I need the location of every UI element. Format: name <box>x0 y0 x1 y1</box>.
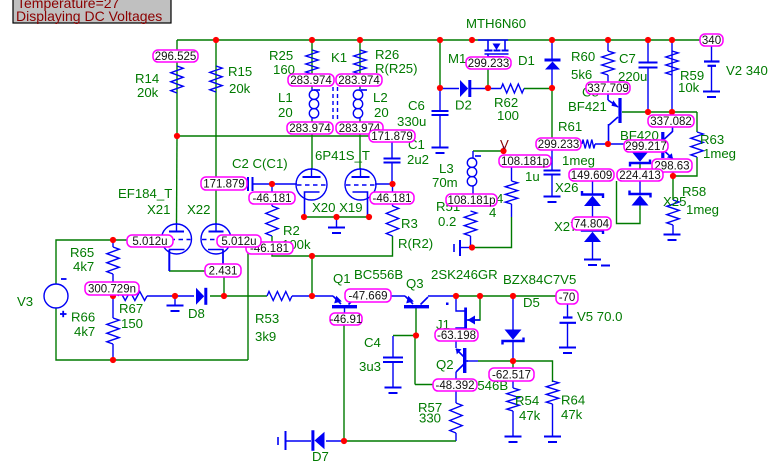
wire R54 upper lead <box>512 381 514 388</box>
wire R60 column <box>607 40 609 51</box>
battery V5 <box>560 318 577 323</box>
svg-text:283.974: 283.974 <box>289 123 331 135</box>
transistor BF421 <box>608 94 622 144</box>
V5 polarity dash <box>601 265 610 267</box>
svg-text:283.974: 283.974 <box>290 75 332 87</box>
wire Q1 base drop <box>343 325 345 441</box>
wire V2 body line <box>711 66 713 91</box>
label 108.181p b <box>446 194 497 207</box>
wire D7 anode wire <box>326 440 344 442</box>
wire X21 cathode drop <box>168 250 170 271</box>
wire X19 grid wire <box>375 183 393 185</box>
wire R66 lower <box>112 344 114 360</box>
wire 1u cap to ground <box>551 175 553 196</box>
node C7 bottom <box>645 109 651 115</box>
wire Q2 node left wire <box>415 384 433 386</box>
stray mark near J1 <box>446 303 449 306</box>
ground under X27 <box>584 260 601 266</box>
ground at D8 <box>167 306 184 312</box>
node R66 bottom <box>110 357 116 363</box>
wire R4 bottom wire <box>472 217 512 248</box>
transistor BF420 <box>640 126 673 159</box>
wire R26 column <box>359 40 361 88</box>
label -47.669 <box>345 289 391 303</box>
svg-text:2SK246GR: 2SK246GR <box>431 267 498 282</box>
wire R14 column <box>176 40 178 136</box>
label 340 <box>700 34 723 47</box>
resistor R61 <box>582 140 595 149</box>
label 108.181p a <box>499 155 551 168</box>
zener diode D5 <box>503 329 524 344</box>
wire X22 cathode drop <box>222 250 224 271</box>
svg-text:R3: R3 <box>401 216 418 231</box>
svg-text:D8: D8 <box>188 306 205 321</box>
wire anode rail 171.879 <box>177 135 369 137</box>
node D5 top <box>510 293 516 299</box>
L3 polarity mark <box>475 155 481 157</box>
svg-text:R(R25): R(R25) <box>375 61 418 76</box>
svg-text:1u: 1u <box>525 169 540 184</box>
label 283.974 c <box>287 122 333 135</box>
node X19 grid <box>389 181 395 187</box>
label 337.709 <box>586 82 630 95</box>
ground under 1u cap <box>544 197 561 203</box>
wire cathode join wire <box>169 270 223 272</box>
wire BF421 collector wire <box>622 111 697 113</box>
wire D2-R62 node wire <box>440 88 459 90</box>
wire R57 lower lead <box>455 433 457 441</box>
wire mid zener lower link <box>639 181 641 193</box>
wire Q2 emitter drop <box>455 372 457 379</box>
wire D8 to R53 wire <box>210 295 267 297</box>
wire R25 column <box>311 40 313 88</box>
svg-text:5k6: 5k6 <box>571 67 592 82</box>
ground under R58 <box>664 235 681 241</box>
svg-text:299.217: 299.217 <box>625 141 667 153</box>
wire X21 grid wire <box>113 239 161 241</box>
wire J1 node wire <box>456 295 513 297</box>
svg-text:R64: R64 <box>561 393 585 408</box>
wire C6 upper lead <box>439 88 441 111</box>
svg-text:10k: 10k <box>678 80 700 95</box>
label -70 <box>556 290 578 304</box>
node D2 left <box>437 85 443 91</box>
label 298.63 <box>652 159 692 173</box>
zener diode X27 (bar under label) <box>582 227 603 242</box>
svg-text:300.729n: 300.729n <box>88 284 136 296</box>
node D7-Q1 <box>341 438 347 444</box>
label 5.012u b <box>217 235 261 248</box>
node BF420 emitter <box>670 173 676 179</box>
svg-text:4k7: 4k7 <box>73 259 94 274</box>
resistor R60 <box>602 51 614 75</box>
wire C1 column <box>391 142 393 158</box>
node X19 cathode <box>366 214 372 220</box>
wire Q3 to J1 wire <box>428 295 456 297</box>
wire R4 column bottom <box>511 204 513 217</box>
transistor Q1 (BC556B) <box>332 296 357 309</box>
D7 input terminal <box>278 431 286 450</box>
wire X26 column <box>592 181 594 194</box>
wire C6 lower lead <box>439 115 441 148</box>
node D8 ground <box>172 293 178 299</box>
label 300.729n <box>85 282 139 296</box>
wire R51 lower lead <box>471 236 473 248</box>
wire Q2 collector to D5 node <box>478 360 513 362</box>
svg-text:R65: R65 <box>70 245 94 260</box>
wire R66 upper <box>112 296 114 318</box>
label 299.233 M1 <box>466 57 511 70</box>
node rail-R26 <box>357 37 363 43</box>
wire D1 column top <box>551 40 553 59</box>
resistor R3 <box>386 206 398 236</box>
resistor R53 <box>267 292 292 301</box>
svg-text:BF421: BF421 <box>568 99 607 114</box>
wire D5 lower lead <box>512 342 514 361</box>
svg-text:-63.198: -63.198 <box>437 330 476 342</box>
wire D5 node to R64 <box>513 361 553 382</box>
wire V3 top wire <box>56 240 113 284</box>
wire R14 to X21 anode <box>176 136 179 224</box>
resistor R63 <box>691 132 703 157</box>
resistor R59 <box>666 51 678 75</box>
svg-text:R25: R25 <box>269 48 293 63</box>
ground under V2 <box>703 92 720 98</box>
svg-text:6P41S_T: 6P41S_T <box>315 148 370 163</box>
wire J1 label to Q2 <box>455 341 457 348</box>
wire Q1 base stub <box>344 308 346 313</box>
capacitor 1u <box>544 171 561 175</box>
wire R63 bottom wire <box>673 157 697 176</box>
label 283.974 d <box>336 122 383 135</box>
node anode rail <box>174 133 180 139</box>
wire R58 column <box>672 176 674 200</box>
wire L3 top wire <box>473 150 503 152</box>
svg-text:330: 330 <box>419 411 441 426</box>
svg-text:R2: R2 <box>283 223 300 238</box>
svg-text:L1: L1 <box>278 90 293 105</box>
ground under C4 <box>385 388 402 394</box>
node rail-M1 <box>469 37 475 43</box>
node rail-R25 <box>309 37 315 43</box>
wire L3 to label <box>472 188 474 194</box>
wire C4 lower lead <box>392 362 394 387</box>
wire X22 grid wire <box>231 239 248 241</box>
svg-text:20: 20 <box>278 105 293 120</box>
svg-text:47k: 47k <box>561 407 583 422</box>
svg-text:R14: R14 <box>135 71 159 86</box>
svg-text:171.879: 171.879 <box>203 179 245 191</box>
svg-text:171.879: 171.879 <box>371 131 413 143</box>
svg-text:D2: D2 <box>455 98 472 113</box>
node rail-R15 <box>213 37 219 43</box>
svg-text:299.233: 299.233 <box>538 139 580 151</box>
vacuum tube X21 (EF184) <box>162 223 192 271</box>
ground under V5 <box>559 348 576 354</box>
resistor R62 <box>501 84 524 93</box>
wire mid zener bottom loop <box>617 181 641 224</box>
svg-text:337.082: 337.082 <box>650 116 692 128</box>
wire R2 bottom wire <box>272 236 393 256</box>
vacuum tube X19 (6P41S) <box>345 168 376 217</box>
label -48.392 <box>433 379 477 392</box>
resistor R15 <box>210 66 222 92</box>
svg-text:74.804: 74.804 <box>574 219 610 231</box>
status header box <box>13 0 171 24</box>
svg-text:V5 70.0: V5 70.0 <box>577 309 622 324</box>
L2 polarity mark <box>361 89 367 91</box>
svg-text:R54: R54 <box>515 393 539 408</box>
svg-text:224.413: 224.413 <box>619 170 661 182</box>
svg-text:-46.91: -46.91 <box>330 314 363 326</box>
label 171.879 C2 <box>201 177 247 191</box>
resistor R64 <box>546 381 558 404</box>
wire D8 ground stub <box>174 296 176 305</box>
node D8-cathode <box>221 293 227 299</box>
svg-text:Displaying DC Voltages: Displaying DC Voltages <box>16 8 162 24</box>
zener diode lower of pair <box>630 191 651 206</box>
svg-text:283.974: 283.974 <box>338 75 380 87</box>
wire X27 to ground <box>592 238 594 259</box>
svg-text:-47.669: -47.669 <box>348 291 387 303</box>
node R61-BF421 <box>605 141 611 147</box>
svg-text:108.181p: 108.181p <box>501 156 549 168</box>
wire BF420 emitter stub <box>672 158 674 162</box>
label 224.413 <box>617 169 663 182</box>
node D1 bottom <box>549 85 555 91</box>
node X20 cathode <box>301 214 307 220</box>
svg-text:C2 C(C1): C2 C(C1) <box>232 156 288 171</box>
wire C6 column upper <box>439 40 441 88</box>
svg-text:0.2: 0.2 <box>438 214 456 229</box>
svg-text:R(R2): R(R2) <box>398 236 433 251</box>
wire X26 to 74.804 <box>592 205 594 217</box>
node D5-Q2 <box>510 358 516 364</box>
label -46.181 c <box>246 242 293 255</box>
node R2-R3 mid <box>309 253 315 259</box>
svg-text:5.012u: 5.012u <box>132 236 167 248</box>
svg-text:337.709: 337.709 <box>587 83 629 95</box>
svg-text:M1: M1 <box>448 51 466 66</box>
wire R59 column <box>671 40 673 112</box>
wire V5 body line <box>567 323 569 347</box>
resistor R57 <box>450 403 462 433</box>
wire J1 top lead <box>456 296 465 311</box>
svg-text:R61: R61 <box>558 119 582 134</box>
svg-text:70m: 70m <box>432 175 458 190</box>
wire feedback drop <box>311 256 313 296</box>
resistor R51 <box>464 211 476 236</box>
JFET J1 <box>464 308 480 329</box>
wire R3 column <box>392 184 394 206</box>
MOSFET M1 (MTH6N60) <box>478 40 509 57</box>
svg-text:330u: 330u <box>397 114 426 129</box>
svg-text:20: 20 <box>374 105 389 120</box>
svg-text:D1: D1 <box>518 53 535 68</box>
wire C7 lower lead <box>647 68 649 113</box>
svg-text:X22: X22 <box>187 202 210 217</box>
wire R54 to ground <box>512 411 514 436</box>
label 149.609 <box>569 169 614 182</box>
svg-text:149.609: 149.609 <box>571 170 613 182</box>
label -62.517 <box>489 368 534 382</box>
node rail-R59 <box>669 37 675 43</box>
wire wire to -70 label <box>513 295 556 297</box>
svg-text:150: 150 <box>121 316 143 331</box>
node rail-R60 <box>605 37 611 43</box>
wire L1 bottom to X20 anode <box>311 120 313 169</box>
wire R62 to D1 node <box>524 88 552 90</box>
wire J1 bottom lead <box>456 328 466 330</box>
wire R61 to BF421 wire <box>595 143 624 145</box>
svg-text:D5: D5 <box>523 295 540 310</box>
svg-text:Q3: Q3 <box>406 276 424 291</box>
wire R64 to ground <box>552 404 554 436</box>
label -46.181 b <box>370 192 414 205</box>
wire C4 node drop <box>414 336 416 385</box>
wire V5 stub <box>567 304 569 317</box>
label -63.198 <box>435 329 478 342</box>
wire D2 to R62 wire <box>471 88 501 90</box>
wire X20 grid wire <box>254 183 297 185</box>
wire mid zener stub top <box>639 152 641 156</box>
svg-text:4k7: 4k7 <box>74 324 95 339</box>
wire C7 upper lead <box>647 40 649 63</box>
svg-text:D7: D7 <box>312 449 329 464</box>
label 337.082 <box>648 115 694 128</box>
wire C4 top wire <box>393 335 416 337</box>
node M1 gate <box>485 85 491 91</box>
wire top B+ rail <box>177 39 700 41</box>
svg-text:-46.181: -46.181 <box>372 193 411 205</box>
wire V3 bottom wire <box>56 308 248 360</box>
ground under C6 <box>432 148 449 154</box>
svg-text:Q1: Q1 <box>333 271 351 286</box>
K1 core coupling dashes <box>333 87 338 120</box>
svg-text:4: 4 <box>489 205 496 220</box>
wire R15 column <box>215 40 217 224</box>
label 296.525 <box>153 50 198 63</box>
svg-text:5.012u: 5.012u <box>221 236 256 248</box>
label 5.012u a <box>127 235 173 248</box>
capacitor C4 <box>383 358 403 363</box>
wire L2 bottom to X19 anode <box>359 120 361 169</box>
node R65-R67 <box>110 293 116 299</box>
svg-text:47k: 47k <box>519 408 541 423</box>
node rail-C7 <box>645 37 651 43</box>
svg-text:20k: 20k <box>229 81 251 96</box>
wire 1u cap column <box>551 150 553 170</box>
label 283.974 a <box>288 74 334 87</box>
diode D2 <box>460 80 470 97</box>
svg-text:100: 100 <box>497 108 519 123</box>
svg-text:X26: X26 <box>555 180 578 195</box>
vacuum tube X20 (6P41S) <box>296 168 327 217</box>
resistor R54 <box>507 388 519 411</box>
svg-text:C4: C4 <box>364 335 381 350</box>
svg-text:-62.517: -62.517 <box>492 370 531 382</box>
vacuum tube X22 (EF184) <box>201 223 231 271</box>
svg-text:R63: R63 <box>700 132 724 147</box>
label 299.233 R61 <box>536 138 581 151</box>
diode D7 <box>313 430 325 451</box>
svg-text:R60: R60 <box>571 49 595 64</box>
label 2.431 <box>205 264 241 278</box>
node V3-R65 <box>110 237 116 243</box>
zener diode upper of pair <box>630 152 650 166</box>
svg-text:340: 340 <box>702 35 721 47</box>
wire X20 cathode ground wire <box>304 216 369 218</box>
svg-text:V: V <box>500 137 509 152</box>
svg-text:R26: R26 <box>375 47 399 62</box>
wire R4 column top <box>511 167 513 181</box>
wire BF420 emitter to dot <box>672 172 674 176</box>
resistor R26 <box>354 50 366 74</box>
svg-text:X21: X21 <box>147 202 170 217</box>
svg-text:C7: C7 <box>619 51 636 66</box>
node rail-C6 <box>437 37 443 43</box>
svg-text:-48.392: -48.392 <box>435 380 474 392</box>
svg-text:C6: C6 <box>408 98 425 113</box>
svg-text:299.233: 299.233 <box>468 58 510 70</box>
svg-text:108.181p: 108.181p <box>448 195 496 207</box>
wire cathode ground stub <box>336 217 338 227</box>
svg-text:L2: L2 <box>373 90 388 105</box>
wire D7 rail <box>344 440 456 442</box>
svg-text:1meg: 1meg <box>686 202 719 217</box>
wire Q3 source drop <box>415 308 417 335</box>
resistor R66 <box>107 318 119 344</box>
node R59 bottom <box>669 109 675 115</box>
svg-text:1meg: 1meg <box>562 153 595 168</box>
wire D1 node to R61 label <box>551 88 553 138</box>
resistor R25 <box>306 50 318 74</box>
node L3 top <box>500 148 506 154</box>
node rail-D1 <box>549 37 555 43</box>
L1 polarity mark <box>314 89 320 91</box>
transistor Q3 (2SK246GR) <box>404 296 429 309</box>
wire R65 column <box>112 240 114 247</box>
wire D5 column <box>512 296 514 332</box>
wire M1 gate column <box>487 69 489 88</box>
node X20 grid <box>269 181 275 187</box>
wire R60 to label 337.709 <box>607 75 609 82</box>
svg-text:R67: R67 <box>119 301 143 316</box>
resistor R65 <box>107 247 119 274</box>
svg-text:Q2: Q2 <box>436 357 454 372</box>
wire R65 lower <box>112 274 114 296</box>
speaker terminal <box>454 240 460 256</box>
svg-text:V3: V3 <box>17 294 33 309</box>
label 74.804 <box>572 217 611 231</box>
label -46.181 a <box>249 192 295 205</box>
node speaker return <box>469 244 475 250</box>
ground under R54 <box>505 437 522 443</box>
svg-text:3u3: 3u3 <box>359 359 381 374</box>
svg-text:X25: X25 <box>663 194 686 209</box>
wire C1 lower lead <box>391 163 393 184</box>
svg-text:296.525: 296.525 <box>155 51 197 63</box>
diode D1 <box>545 60 561 70</box>
voltage source V3 <box>44 279 68 317</box>
diode D8 <box>196 288 206 305</box>
wire R58 to ground <box>672 225 674 234</box>
resistor R14 <box>171 66 183 93</box>
wire R67 to D8 wire <box>147 295 194 297</box>
svg-text:R15: R15 <box>228 64 252 79</box>
wire Q1 collector wire <box>356 295 405 297</box>
svg-text:20k: 20k <box>137 85 159 100</box>
